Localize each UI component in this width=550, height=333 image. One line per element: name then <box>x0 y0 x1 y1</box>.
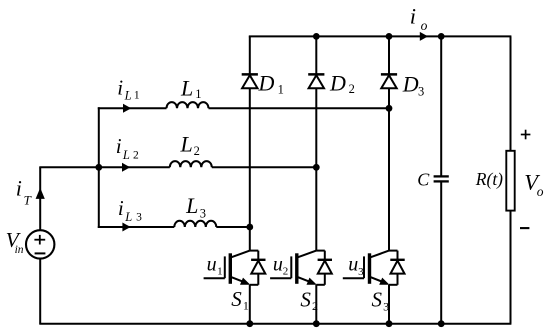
current arrow i_o <box>420 32 428 41</box>
svg-text:i: i <box>16 176 22 201</box>
junction phase2-column2 <box>313 164 320 171</box>
svg-text:1: 1 <box>278 83 284 97</box>
svg-text:3: 3 <box>136 211 142 223</box>
svg-text:1: 1 <box>134 90 140 102</box>
wire: phase 1 branch <box>98 107 389 109</box>
transistor S1 (IGBT) <box>204 251 251 285</box>
svg-text:R(t): R(t) <box>475 169 503 189</box>
wire: main input vertical <box>98 107 100 228</box>
node: input branch point <box>95 164 102 171</box>
svg-text:T: T <box>24 193 32 208</box>
wire: column 2 lower <box>315 88 317 250</box>
svg-text:u: u <box>207 253 217 275</box>
svg-text:3: 3 <box>358 266 364 278</box>
wire: column 1 upper (to diode D1) <box>249 36 251 74</box>
wire: top output rail <box>249 35 512 37</box>
transistor S3 (IGBT) <box>343 251 390 285</box>
resistor R(t) <box>506 151 514 211</box>
current arrow i_L3 <box>122 223 130 232</box>
junction S2-bottom rail <box>313 320 320 327</box>
junction cap-bottom rail <box>438 320 445 327</box>
wire: source bottom lead <box>39 259 41 324</box>
svg-text:1: 1 <box>217 265 223 277</box>
anti-parallel diode of S3 <box>389 251 405 285</box>
junction S1-bottom rail <box>246 320 253 327</box>
svg-text:i: i <box>116 134 122 158</box>
label + (output polarity) <box>521 130 531 140</box>
wire: capacitor branch lower <box>440 181 442 323</box>
svg-text:in: in <box>15 244 24 256</box>
svg-text:D: D <box>258 70 275 95</box>
wire: bottom rail <box>39 323 511 325</box>
diode D1 <box>242 74 258 88</box>
capacitor C <box>434 176 449 181</box>
current arrow i_L1 <box>123 104 131 113</box>
wire: column 3 upper (to diode D3) <box>388 36 390 74</box>
junction column2-top rail <box>313 33 320 40</box>
svg-text:L: L <box>180 131 193 156</box>
transistor S2 (IGBT) <box>270 251 317 285</box>
wire: right load branch lower <box>510 211 512 324</box>
svg-text:L: L <box>122 148 130 162</box>
svg-text:L: L <box>124 89 132 103</box>
wire: right load branch upper <box>510 36 512 151</box>
wire: phase 2 branch <box>98 166 316 168</box>
junction phase3-column1 <box>246 224 253 231</box>
svg-text:S: S <box>231 287 242 311</box>
current arrow i_L2 <box>122 163 130 172</box>
svg-text:D: D <box>329 70 346 95</box>
svg-text:o: o <box>537 184 544 199</box>
svg-text:i: i <box>118 196 124 220</box>
svg-text:3: 3 <box>383 300 389 314</box>
anti-parallel diode of S2 <box>316 251 332 285</box>
svg-text:3: 3 <box>200 207 206 221</box>
junction phase1-column3 <box>386 105 393 112</box>
wire: column 1 lower <box>249 88 251 250</box>
svg-text:S: S <box>300 288 311 312</box>
svg-text:1: 1 <box>243 298 249 312</box>
svg-text:C: C <box>417 170 430 190</box>
svg-text:u: u <box>273 253 283 275</box>
svg-text:L: L <box>180 75 193 100</box>
voltage source V_in <box>26 230 54 258</box>
junction cap-top rail <box>438 33 445 40</box>
junction column3-top rail <box>386 33 393 40</box>
svg-text:2: 2 <box>283 266 289 278</box>
wire: source top lead <box>39 167 41 230</box>
svg-text:L: L <box>185 193 198 218</box>
diode D3 <box>381 74 397 88</box>
svg-text:u: u <box>348 253 358 275</box>
inductor L3 <box>174 221 216 227</box>
wire: capacitor branch upper <box>440 36 442 176</box>
svg-text:o: o <box>421 18 428 33</box>
wire: S2 emitter to bottom rail <box>315 285 317 324</box>
svg-text:2: 2 <box>133 149 139 161</box>
wire: input horizontal to node <box>39 166 99 168</box>
diode D2 <box>308 74 324 88</box>
svg-text:D: D <box>402 71 419 96</box>
svg-text:2: 2 <box>194 144 200 158</box>
svg-text:L: L <box>124 210 132 224</box>
svg-text:i: i <box>410 4 416 29</box>
svg-text:1: 1 <box>195 87 201 101</box>
inductor L1 <box>167 102 209 108</box>
svg-text:3: 3 <box>418 85 424 99</box>
junction S3-bottom rail <box>386 320 393 327</box>
svg-text:S: S <box>372 288 383 312</box>
svg-text:i: i <box>117 75 123 99</box>
anti-parallel diode of S1 <box>250 251 266 285</box>
label - (output polarity) <box>520 227 529 229</box>
svg-text:2: 2 <box>349 82 355 96</box>
wire: column 2 upper (to diode D2) <box>315 36 317 74</box>
current arrow i_T <box>36 188 45 199</box>
wire: phase 3 branch <box>98 226 250 228</box>
inductor L2 <box>170 161 212 167</box>
wire: S1 emitter to bottom rail <box>249 285 251 324</box>
svg-text:2: 2 <box>312 299 318 313</box>
wire: S3 emitter to bottom rail <box>388 285 390 324</box>
wire: column 3 lower <box>388 88 390 250</box>
